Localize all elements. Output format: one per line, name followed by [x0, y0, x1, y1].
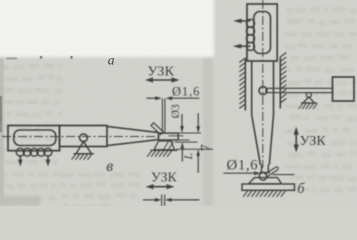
transducer housing: [8, 126, 60, 151]
dimension L: [180, 142, 184, 161]
horn tip cylinder: [261, 165, 263, 173]
dimension 7: [196, 113, 200, 133]
fulcrum triangle: [76, 142, 92, 154]
coil lead arrow 1: [18, 155, 23, 167]
wire being welded (vertical, O1.6): [161, 99, 163, 134]
dia 3 pointer arrow: [180, 114, 184, 133]
magnetostrictive core: [14, 130, 56, 146]
fulcrum hatching: [299, 103, 318, 109]
centerline of horizontal transducer: [2, 136, 161, 138]
remnant smudge: [6, 58, 17, 60]
column: [251, 61, 253, 115]
anvil block under tip: [154, 141, 175, 150]
lever pivot circle: [259, 87, 267, 95]
dia 1.6 dimension arrows: [147, 96, 162, 100]
fulcrum hatching: [72, 154, 93, 160]
white margin block: [0, 0, 214, 57]
vertical core: [254, 12, 271, 54]
ground line and hatching under anvil: [151, 149, 178, 151]
substrate mound on anvil: [249, 178, 282, 184]
lever fulcrum circle: [306, 93, 311, 98]
coil lead arrow 2: [46, 155, 51, 167]
support pivot circle: [80, 134, 88, 142]
angled clamp piece: [151, 123, 163, 135]
remnant arrow tip 2 of diagram a: [70, 56, 73, 59]
coil lead arrow top: [233, 19, 250, 24]
vertical horn cone: [252, 115, 274, 165]
vertical coil: [246, 19, 254, 50]
extension lines: [175, 141, 198, 143]
counterweight block: [333, 77, 355, 101]
horn tip foot: [260, 172, 270, 174]
right guide wall: [279, 57, 281, 109]
anvil plate: [242, 184, 295, 190]
horn cone: [107, 126, 159, 145]
UZK vertical double arrow (b): [294, 127, 299, 153]
leader arrow to tip: [224, 171, 261, 175]
tool rod at horn tip: [159, 133, 179, 140]
bent wire under tip: [259, 173, 267, 181]
lever fulcrum triangle: [303, 97, 315, 103]
coil winding: [16, 148, 52, 156]
coil lead arrow bottom: [233, 44, 251, 49]
extension of rod edges: [178, 132, 201, 134]
UZK double arrow bottom: [146, 184, 175, 189]
remnant arrow tip 1 of diagram a: [40, 56, 43, 59]
left guide wall: [244, 58, 246, 111]
wire dimension remnant: [143, 198, 161, 202]
UZK double arrow top: [145, 77, 180, 82]
concentrator rod section: [60, 126, 108, 147]
ground hatching under plate: [243, 190, 286, 197]
centerline vertical: [262, 0, 264, 168]
left edge scan artifact: [0, 96, 2, 132]
lever bar: [266, 88, 333, 92]
vertical transducer housing: [247, 4, 277, 61]
